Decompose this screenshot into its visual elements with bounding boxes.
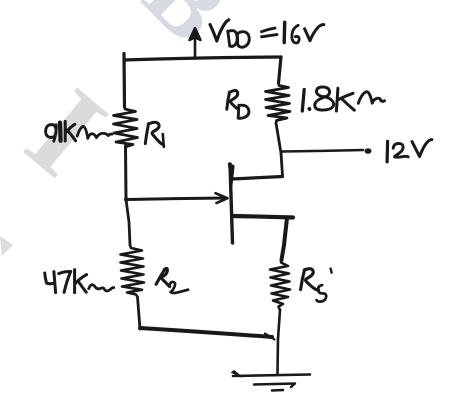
wire left lower: [126, 200, 130, 246]
wire 12V tap: [282, 150, 363, 152]
wire source lead: [282, 218, 288, 260]
wire right upper: [279, 57, 282, 83]
resistor R2: [121, 245, 145, 297]
gate arrowhead: [216, 193, 228, 203]
wire bottom rail: [140, 328, 272, 337]
wire drain tap: [232, 177, 283, 180]
wire left mid: [124, 146, 128, 199]
label RD: [227, 90, 249, 118]
watermark left: [2, 62, 131, 203]
wire left upper: [122, 54, 126, 108]
resistor RD: [266, 83, 291, 123]
wire gate: [126, 198, 225, 200]
label R2: [156, 268, 188, 293]
wire right mid: [276, 123, 281, 153]
label R1: [145, 122, 164, 147]
label 1.8k ohm: [302, 87, 384, 111]
label 47k ohm: [45, 270, 114, 293]
node VDD arrow: [194, 38, 197, 58]
wire drain riser: [281, 153, 283, 176]
label 12V: [387, 140, 432, 162]
watermark corner mark: [0, 236, 13, 256]
wire RS bottom: [278, 310, 281, 373]
ground: [233, 375, 310, 377]
resistor RS: [270, 260, 290, 310]
label RS: [301, 269, 332, 302]
wire left bottom: [138, 297, 141, 329]
node 12V dot: [365, 148, 372, 154]
node source junction tick: [265, 334, 275, 340]
resistor R1: [114, 105, 138, 147]
transistor source tap: [233, 216, 293, 218]
label VDD = 16V: [210, 20, 324, 47]
wire top rail: [124, 57, 281, 60]
watermark top: [124, 0, 250, 63]
node gate junction: [124, 197, 129, 201]
label 91k ohm: [46, 121, 112, 141]
transistor Q1 channel bar: [230, 164, 233, 243]
